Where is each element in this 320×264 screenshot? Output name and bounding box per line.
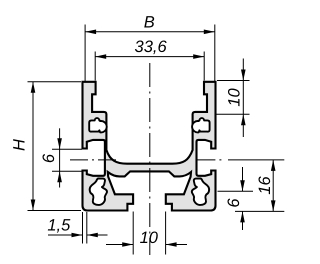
svg-text:10: 10: [226, 88, 244, 107]
svg-text:B: B: [144, 14, 155, 32]
svg-text:33,6: 33,6: [135, 38, 168, 56]
svg-text:H: H: [11, 139, 29, 151]
svg-text:1,5: 1,5: [47, 217, 71, 235]
svg-text:10: 10: [140, 229, 159, 247]
svg-text:16: 16: [256, 176, 274, 195]
svg-text:6: 6: [40, 153, 58, 163]
svg-text:6: 6: [225, 198, 243, 208]
